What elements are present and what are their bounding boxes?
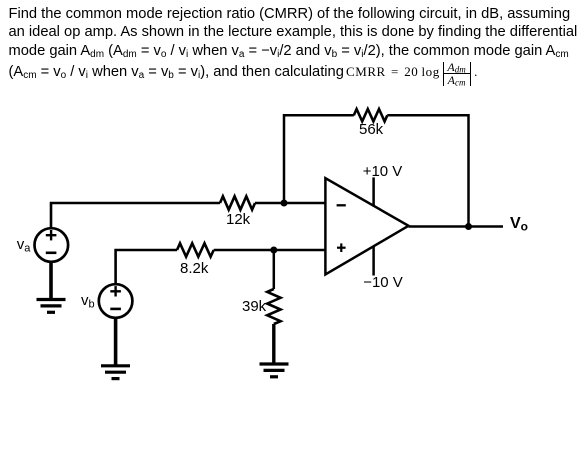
formula fraction |Adm/Acm| bbox=[443, 62, 471, 86]
node junction: output bbox=[465, 223, 472, 230]
label 39k bbox=[242, 299, 266, 314]
resistor 39k (vertical) bbox=[267, 289, 280, 324]
op-amp inverting input label - bbox=[337, 204, 346, 206]
source vb bbox=[99, 284, 133, 318]
wire: feedback left vertical bbox=[284, 115, 354, 203]
wire: feedback top right + right vertical down to output bbox=[387, 115, 468, 226]
ground (va) bbox=[37, 300, 66, 313]
ground (vb) bbox=[101, 366, 130, 379]
resistor 56k bbox=[354, 109, 388, 121]
op-amp non-inverting input label + bbox=[337, 243, 346, 252]
label Vo bbox=[510, 216, 528, 235]
vb plus sign bbox=[110, 286, 121, 296]
wire: output bbox=[409, 225, 504, 228]
node junction: inverting input bbox=[281, 200, 288, 207]
label 56k bbox=[359, 122, 383, 137]
va plus sign bbox=[46, 230, 57, 240]
node junction: non-inverting input bbox=[270, 247, 277, 254]
op-amp +10V supply pin bbox=[372, 177, 375, 205]
label va bbox=[17, 237, 31, 257]
source va bbox=[35, 228, 69, 262]
label vb bbox=[81, 293, 95, 313]
label +10 V bbox=[363, 164, 403, 179]
ground (39k) bbox=[260, 364, 289, 377]
op-amp U1 triangle bbox=[325, 178, 408, 274]
wire: 12k right to op-amp inverting input bbox=[255, 202, 325, 205]
wire: junction down to 39k bbox=[273, 250, 276, 289]
vb minus sign bbox=[110, 308, 121, 311]
va minus sign bbox=[46, 252, 57, 255]
wire: 39k to ground bbox=[272, 324, 275, 364]
wire: va top to 12k bbox=[51, 203, 220, 228]
problem statement paragraph lines 1-3 bbox=[9, 5, 578, 65]
op-amp -10V supply pin bbox=[372, 246, 375, 275]
wire: va to ground bbox=[49, 262, 53, 300]
label 12k bbox=[226, 212, 250, 227]
wire: vb to ground bbox=[114, 318, 118, 366]
label -10 V bbox=[363, 275, 403, 290]
problem statement line 4 with formula bbox=[9, 63, 478, 86]
wire: 8.2k right to op-amp non-inverting input bbox=[214, 249, 326, 252]
label 8.2k bbox=[180, 261, 208, 276]
wire: vb top to 8.2k bbox=[116, 250, 177, 284]
resistor 12k bbox=[220, 196, 255, 209]
resistor 8.2k bbox=[177, 243, 214, 256]
